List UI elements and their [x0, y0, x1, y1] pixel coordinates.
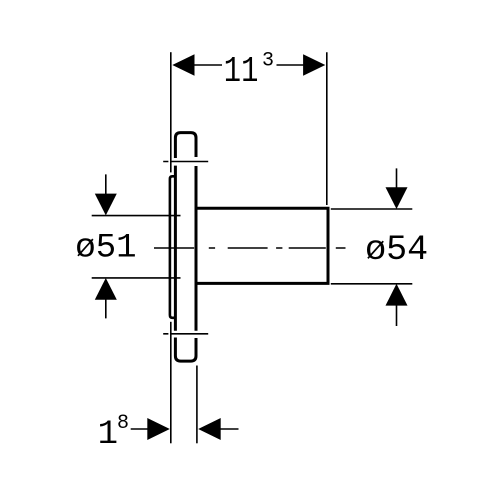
svg-text:3: 3 [262, 50, 274, 73]
svg-text:11: 11 [224, 51, 259, 92]
svg-text:ø51: ø51 [75, 230, 136, 268]
svg-text:1: 1 [98, 416, 118, 454]
svg-text:ø54: ø54 [365, 230, 428, 270]
svg-text:8: 8 [117, 412, 129, 435]
